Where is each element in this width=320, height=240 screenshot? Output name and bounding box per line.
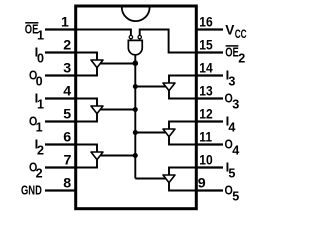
pin 1 stub (wire) [45, 28, 77, 30]
pin 10 stub (wire) [195, 166, 223, 168]
svg-text:16: 16 [199, 14, 212, 30]
junction node: enable bus / buffer U5 [133, 84, 138, 89]
net label OE2 (pin 15) [226, 45, 239, 47]
wire input pin 2 to buffer U2 (I0-O0) [76, 53, 97, 61]
package body DIP-16 outline [76, 6, 197, 209]
svg-text:1: 1 [61, 15, 69, 31]
enable gate U1 input bubble (right, OE2) [138, 35, 141, 38]
net label OE1 (pin 1) [25, 22, 38, 24]
svg-text:2: 2 [63, 38, 71, 54]
pin 9 stub (wire) [195, 189, 223, 191]
svg-text:1: 1 [37, 29, 44, 43]
pin 14 stub (wire) [195, 74, 223, 76]
svg-text:0: 0 [37, 52, 44, 66]
wire output buffer U5 (I3-O3) to pin 13 [169, 91, 196, 99]
svg-text:2: 2 [37, 144, 44, 158]
pin 16 stub (wire) [195, 28, 223, 30]
svg-text:2: 2 [238, 52, 245, 66]
pin 6 stub (wire) [45, 143, 77, 145]
pin 15 stub (wire) [195, 51, 223, 53]
svg-text:9: 9 [198, 176, 206, 192]
svg-text:1: 1 [37, 98, 44, 112]
wire input pin 12 to buffer U6 (I4-O4) [169, 122, 196, 130]
svg-text:4: 4 [228, 121, 235, 135]
pin 13 stub (wire) [195, 97, 223, 99]
3-state buffer U2 (I0-O0) [91, 60, 103, 68]
pin 8 stub (wire) [45, 189, 77, 191]
wire input pin 14 to buffer U5 (I3-O3) [169, 76, 196, 84]
svg-text:GND: GND [21, 184, 42, 198]
svg-text:V: V [225, 22, 235, 37]
junction node: gate output to enable bus [133, 60, 139, 66]
3-state buffer U5 (I3-O3) [163, 83, 175, 91]
svg-text:4: 4 [232, 144, 239, 158]
svg-text:1: 1 [36, 121, 43, 135]
svg-text:CC: CC [235, 29, 247, 42]
svg-text:6: 6 [63, 130, 71, 146]
svg-text:8: 8 [63, 176, 71, 192]
wire OE2 from gate input to pin 15 [140, 30, 196, 53]
svg-text:0: 0 [36, 75, 43, 89]
pin 12 stub (wire) [195, 120, 223, 122]
svg-text:5: 5 [228, 167, 235, 181]
svg-text:2: 2 [36, 167, 43, 181]
svg-text:14: 14 [199, 60, 213, 76]
enable gate U1 input bubble (left, OE1) [129, 35, 132, 38]
wire gate output [134, 55, 136, 64]
wire input pin 4 to buffer U3 (I1-O1) [76, 99, 97, 107]
3-state buffer U7 (I5-O5) [163, 175, 175, 183]
wire OE1 from pin 1 to gate input [76, 30, 131, 36]
svg-text:OE: OE [225, 46, 239, 60]
svg-text:12: 12 [199, 106, 212, 122]
wire enable bus (vertical) [134, 63, 136, 178]
wire enable to buffer U5 (I3-O3) [135, 86, 166, 88]
wire input pin 6 to buffer U4 (I2-O2) [76, 145, 97, 153]
svg-text:3: 3 [232, 98, 239, 112]
junction node: enable bus / buffer U4 [133, 153, 138, 158]
svg-text:13: 13 [199, 83, 212, 99]
enable gate U1 (AND, active-low inputs) body [128, 40, 142, 54]
wire output buffer U2 (I0-O0) to pin 3 [76, 68, 97, 76]
svg-text:10: 10 [199, 152, 212, 168]
3-state buffer U3 (I1-O1) [91, 106, 103, 114]
wire output buffer U6 (I4-O4) to pin 11 [169, 137, 196, 145]
pin 3 stub (wire) [45, 74, 77, 76]
svg-text:7: 7 [64, 153, 72, 169]
wire enable to buffer U6 (I4-O4) [135, 132, 166, 134]
svg-text:5: 5 [232, 190, 239, 204]
svg-text:15: 15 [199, 37, 212, 53]
junction node: enable bus / buffer U6 [133, 130, 138, 135]
pin 7 stub (wire) [45, 166, 77, 168]
svg-text:3: 3 [228, 75, 235, 89]
pin-1 orientation notch [122, 7, 150, 21]
pin 11 stub (wire) [195, 143, 223, 145]
3-state buffer U4 (I2-O2) [91, 152, 103, 160]
svg-text:3: 3 [63, 61, 71, 77]
svg-text:4: 4 [63, 84, 71, 100]
pin 2 stub (wire) [45, 51, 77, 53]
3-state buffer U6 (I4-O4) [163, 129, 175, 137]
wire input pin 10 to buffer U7 (I5-O5) [169, 168, 196, 176]
junction node: enable bus / buffer U3 [133, 107, 138, 112]
wire enable to buffer U2 (I0-O0) [100, 63, 136, 65]
pin 5 stub (wire) [45, 120, 77, 122]
wire enable to buffer U4 (I2-O2) [100, 155, 136, 157]
wire output buffer U4 (I2-O2) to pin 7 [76, 160, 97, 168]
pin 4 stub (wire) [45, 97, 77, 99]
svg-text:11: 11 [199, 129, 212, 145]
wire enable to buffer U3 (I1-O1) [100, 109, 136, 111]
wire output buffer U7 (I5-O5) to pin 9 [169, 183, 196, 191]
wire enable to buffer U7 (I5-O5) [135, 178, 166, 180]
svg-text:5: 5 [63, 107, 71, 123]
wire output buffer U3 (I1-O1) to pin 5 [76, 114, 97, 122]
